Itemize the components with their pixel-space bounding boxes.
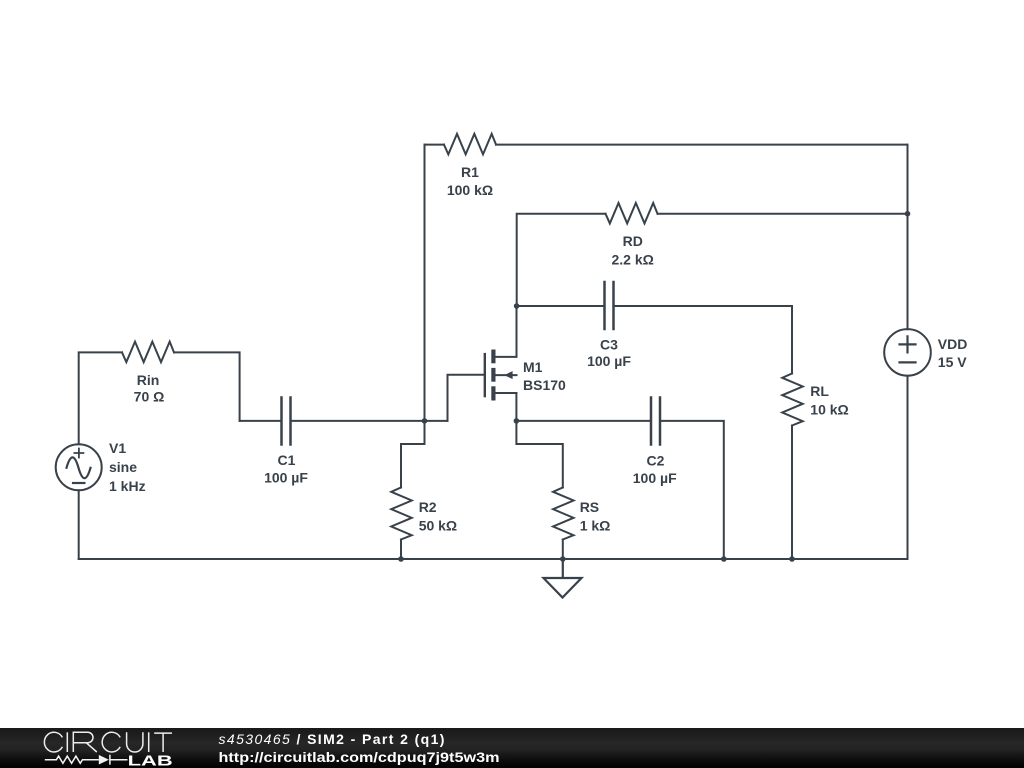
wire C1 left lead [240, 420, 282, 422]
svg-text:s4530465 / SIM2 - Part 2 (q1): s4530465 / SIM2 - Part 2 (q1) [219, 731, 446, 747]
transistor M1 arrow [504, 371, 512, 379]
transistor M1 source wire [496, 392, 517, 394]
resistor RS [553, 488, 574, 540]
svg-text:100 kΩ: 100 kΩ [447, 182, 493, 198]
wire RD row left lead [517, 214, 606, 306]
svg-text:Rin: Rin [137, 372, 160, 388]
resistor R2 [391, 488, 412, 540]
source V1 sine [67, 457, 91, 478]
svg-text:100 µF: 100 µF [587, 353, 631, 369]
svg-text:C2: C2 [647, 453, 665, 469]
svg-text:15 V: 15 V [938, 354, 967, 370]
svg-text:10 kΩ: 10 kΩ [810, 402, 848, 418]
capacitor C3 [605, 282, 614, 329]
node R2-rail junction dot [398, 556, 404, 562]
transistor M1 gate line [484, 354, 486, 396]
node VDD-RD junction dot [905, 211, 911, 217]
wire top rail left lead [425, 144, 445, 146]
capacitor C2 [651, 398, 660, 445]
wire C3 row left [517, 305, 605, 307]
logo resistor squiggle [45, 756, 99, 763]
wire top rail right [496, 144, 907, 146]
logo CIRCUIT letter I [66, 732, 68, 752]
logo CIRCUIT letter C2 [102, 732, 120, 752]
svg-text:50 kΩ: 50 kΩ [419, 518, 457, 534]
wire V1 bottom lead [78, 490, 80, 559]
wire C1 to node A [291, 420, 448, 422]
svg-text:100 µF: 100 µF [633, 470, 677, 486]
node RS-rail junction dot [560, 556, 566, 562]
node C2-rail junction dot [721, 556, 727, 562]
svg-text:2.2 kΩ: 2.2 kΩ [612, 252, 654, 268]
svg-text:R1: R1 [461, 164, 479, 180]
logo diode wire [110, 759, 128, 761]
source V1 circle [56, 444, 102, 490]
source VDD circle [884, 329, 931, 376]
svg-text:M1: M1 [523, 359, 543, 375]
logo CIRCUIT letter C [44, 732, 62, 752]
logo diode bar [109, 755, 111, 765]
transistor M1 gate wire [515, 393, 517, 421]
svg-text:sine: sine [109, 459, 137, 475]
wire source node to C2 [516, 420, 651, 422]
resistor RL [782, 374, 803, 426]
logo CIRCUIT letter I2 [148, 732, 150, 752]
source V1 minus [73, 482, 84, 484]
logo diode triangle [99, 755, 109, 765]
svg-text:http://circuitlab.com/cdpuq7j9: http://circuitlab.com/cdpuq7j9t5w3m [219, 750, 500, 765]
svg-text:100 µF: 100 µF [264, 470, 308, 486]
svg-text:RD: RD [623, 233, 643, 249]
capacitor C1 [282, 398, 291, 445]
svg-text:LAB: LAB [128, 753, 173, 768]
svg-text:C1: C1 [278, 452, 296, 468]
svg-text:RL: RL [810, 383, 829, 399]
source V1 plus [74, 449, 83, 458]
wire VDD vertical top [907, 145, 909, 330]
transistor M1 channel bars [491, 350, 495, 364]
node source junction dot [514, 418, 520, 424]
resistor R1 [444, 134, 496, 155]
wire Rin right lead [174, 352, 240, 421]
node A junction dot [422, 418, 428, 424]
svg-text:V1: V1 [109, 440, 126, 456]
wire gate jog [448, 375, 484, 421]
svg-text:70 Ω: 70 Ω [134, 389, 165, 405]
svg-text:VDD: VDD [938, 336, 968, 352]
wire RD row right [658, 213, 908, 215]
source VDD plus [900, 336, 916, 352]
wire R1 vertical [424, 145, 426, 421]
wire C2 right lead [660, 421, 724, 559]
transistor M1 body wire [496, 374, 517, 376]
footer bar [0, 728, 1024, 768]
svg-text:BS170: BS170 [523, 377, 566, 393]
ground [544, 559, 582, 598]
transistor M1 drain vertical [496, 306, 517, 357]
svg-text:C3: C3 [600, 337, 618, 353]
source VDD minus [900, 361, 916, 363]
resistor RD [606, 203, 658, 224]
wire bottom rail [79, 558, 908, 560]
svg-text:1 kΩ: 1 kΩ [580, 518, 611, 534]
node RL-rail junction dot [789, 556, 795, 562]
wire RS bottom lead [562, 540, 564, 560]
resistor Rin [122, 342, 174, 363]
wire V1 top lead [79, 352, 122, 444]
wire RS jog [516, 421, 562, 488]
logo CIRCUIT letter R [73, 732, 97, 752]
wire R2 jog [401, 421, 425, 488]
logo CIRCUIT letter U [127, 732, 143, 752]
node drain junction dot [514, 303, 520, 309]
svg-text:1 kHz: 1 kHz [109, 478, 146, 494]
wire C3 row right [614, 306, 793, 374]
logo CIRCUIT letter T [154, 733, 172, 752]
svg-text:R2: R2 [419, 499, 437, 515]
svg-text:RS: RS [580, 499, 599, 515]
wire R2 bottom lead [400, 540, 402, 560]
wire VDD vertical bottom [907, 376, 909, 559]
wire RL bottom lead [791, 426, 793, 560]
